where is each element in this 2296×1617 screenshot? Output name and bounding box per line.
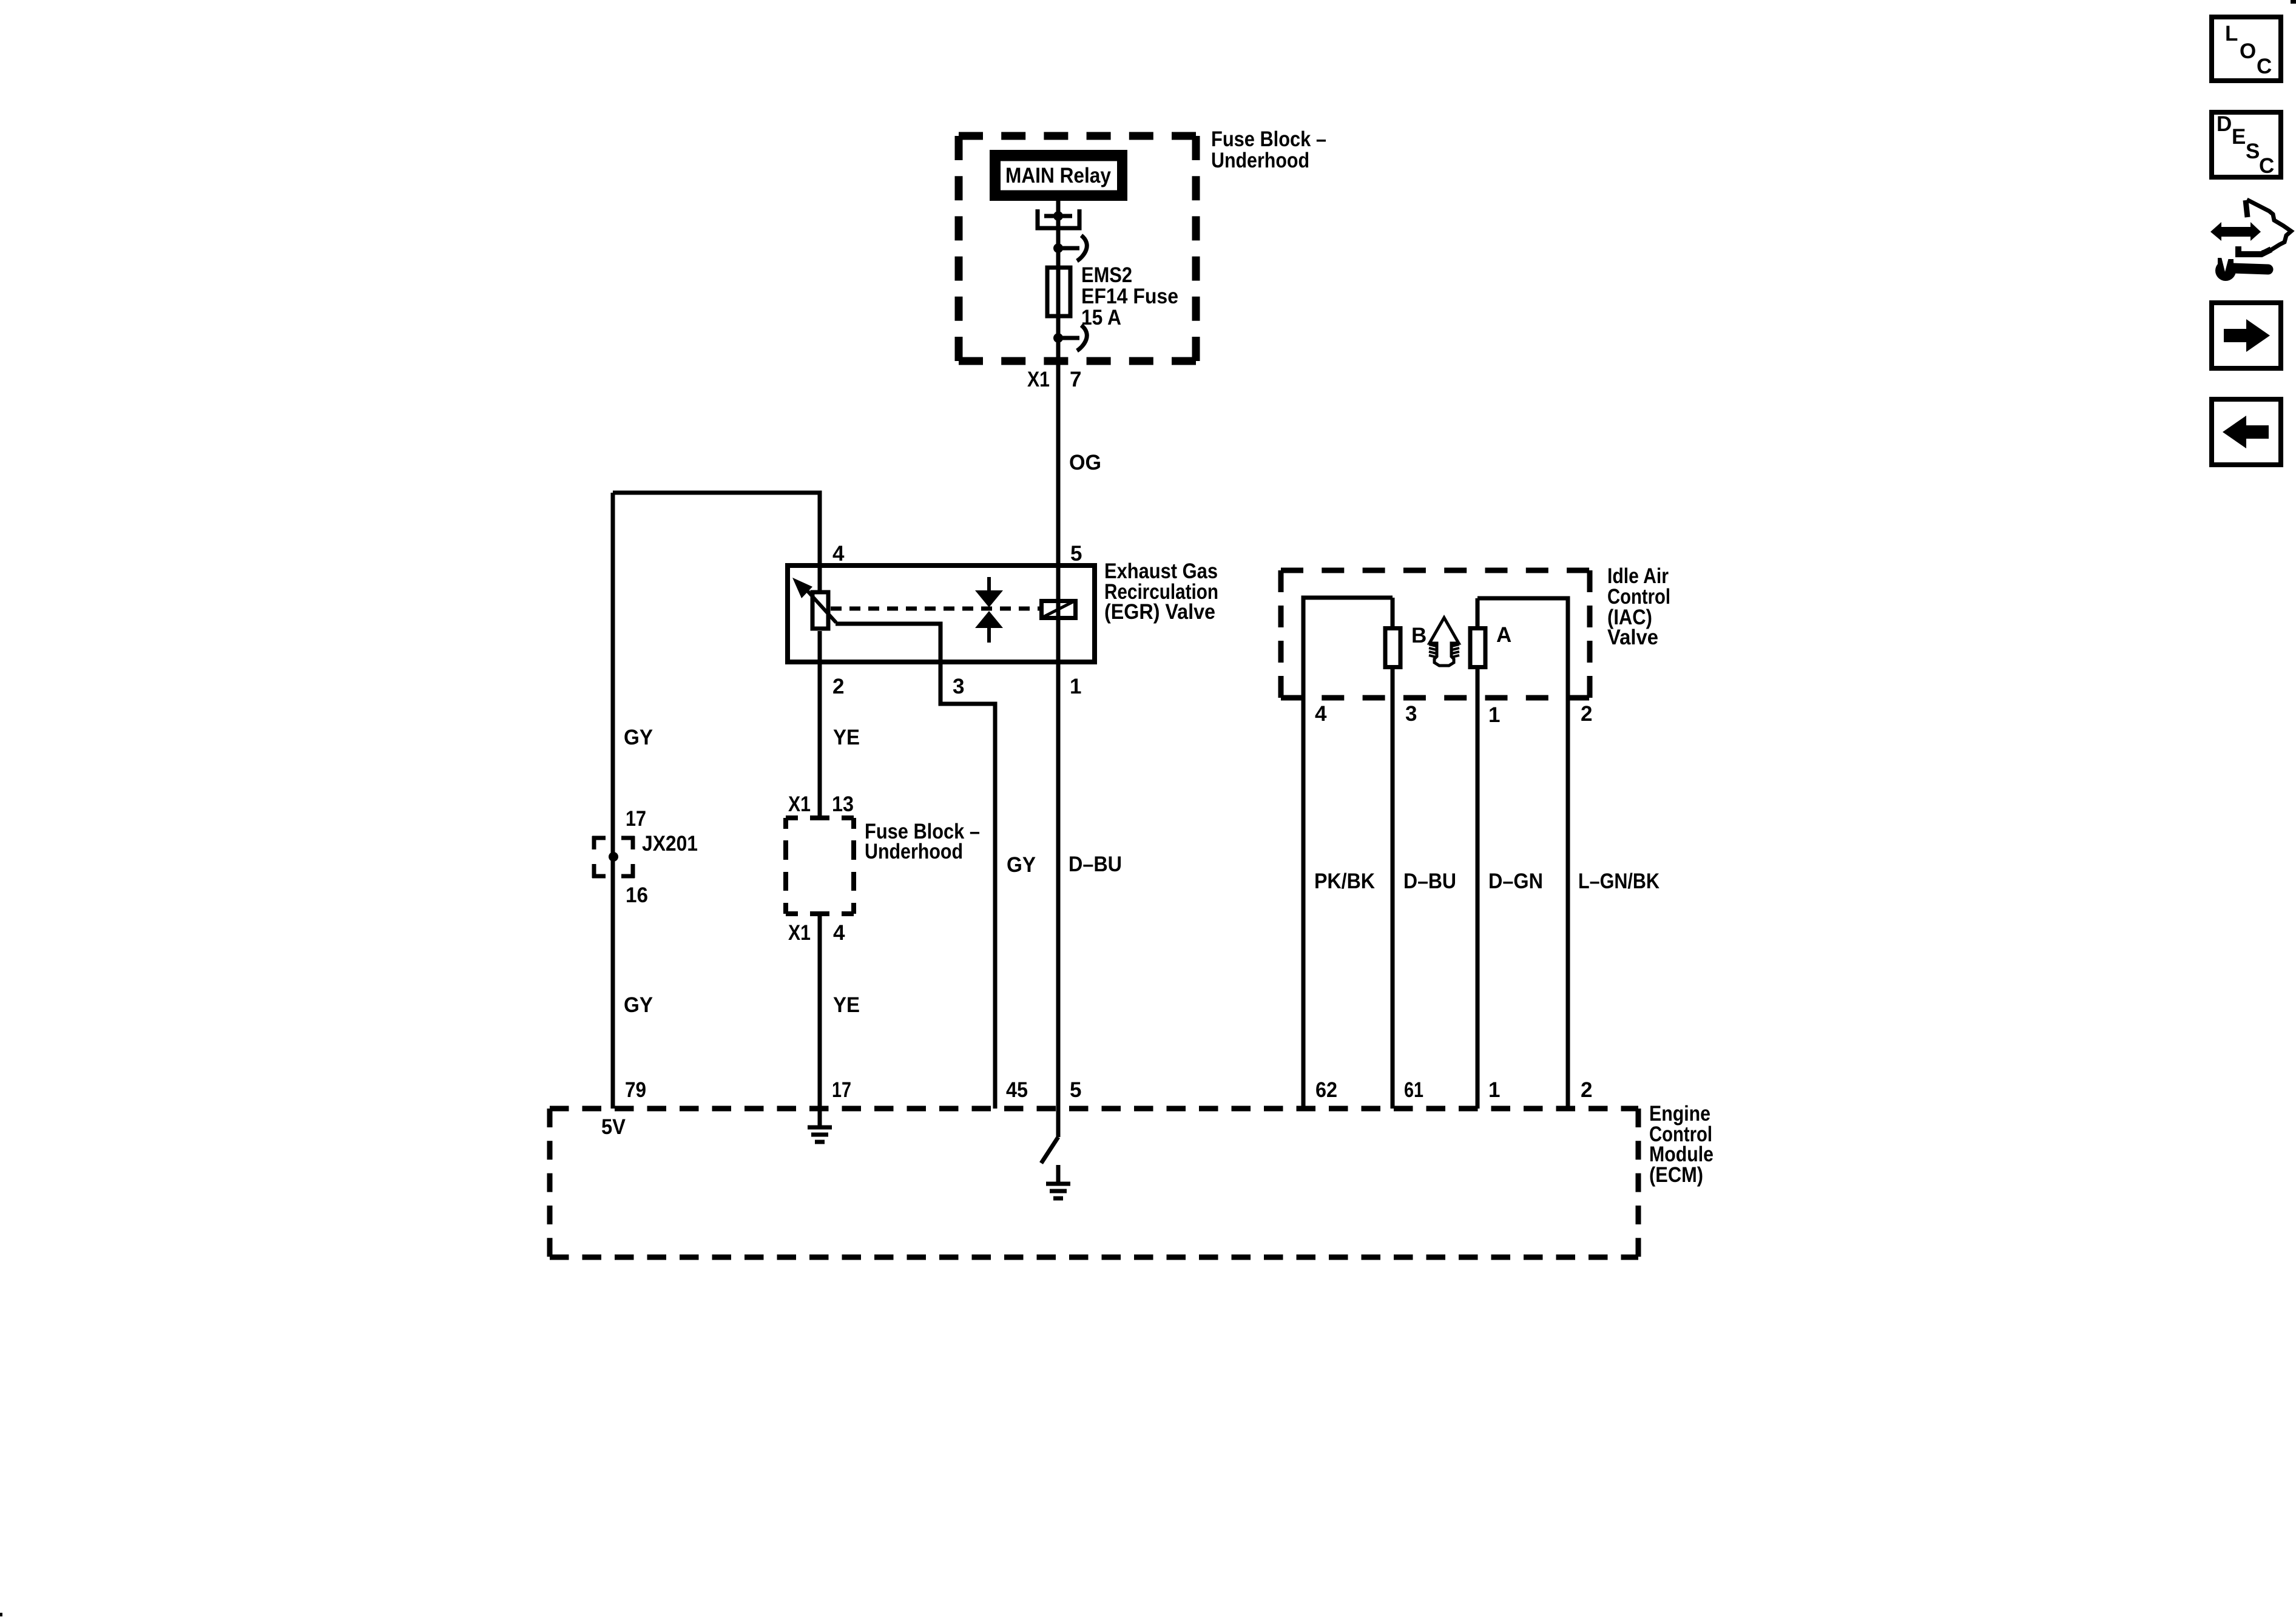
- coil A winding box: [1470, 629, 1485, 667]
- fuse block underhood (top) dashed box: [959, 136, 1196, 361]
- svg-text:Underhood: Underhood: [865, 840, 963, 863]
- wire relay output vertical OG feed: [1056, 201, 1061, 1137]
- svg-text:3: 3: [1405, 702, 1417, 726]
- wire IAC pin 4 PK/BK to ECM pin 62: [1303, 598, 1393, 1109]
- svg-text:MAIN Relay: MAIN Relay: [1005, 164, 1111, 187]
- svg-text:YE: YE: [833, 993, 860, 1017]
- svg-text:4: 4: [832, 542, 845, 565]
- svg-text:4: 4: [833, 921, 845, 945]
- svg-text:2: 2: [1581, 702, 1592, 726]
- node junction below fuse: [1053, 333, 1063, 343]
- svg-text:X1: X1: [788, 921, 811, 945]
- icon repair instructions: wrench: [2215, 257, 2268, 281]
- svg-text:1: 1: [1488, 703, 1500, 727]
- svg-text:(EGR) Valve: (EGR) Valve: [1104, 600, 1215, 624]
- icon repair instructions: double arrow: [2210, 222, 2261, 241]
- node dot at crossbar: [1053, 211, 1063, 221]
- svg-text:PK/BK: PK/BK: [1314, 869, 1375, 893]
- label Exhaust Gas Recirculation (EGR) Valve: [1104, 559, 1218, 624]
- IAC valve dashed box: [1281, 570, 1590, 698]
- svg-text:L: L: [2225, 22, 2238, 46]
- svg-text:GY: GY: [1007, 853, 1036, 877]
- female terminal hook (upper): [1077, 235, 1087, 261]
- wire IAC pin 1 D-GN to ECM pin 1: [1476, 667, 1480, 1109]
- svg-text:16: 16: [626, 883, 648, 907]
- coil B winding box: [1385, 629, 1400, 667]
- female terminal hook (lower): [1077, 325, 1087, 351]
- svg-text:C: C: [2259, 154, 2274, 178]
- wire IAC pin 3 D-BU to ECM pin 61: [1391, 667, 1395, 1109]
- label Fuse Block - Underhood (top): [1211, 127, 1326, 172]
- svg-text:2: 2: [832, 675, 844, 698]
- splice JX201 corner brackets: [592, 836, 635, 878]
- wire EGR pin 3 wiper GY with jog to ECM pin 45: [836, 624, 995, 1109]
- label Fuse Block - Underhood (middle): [865, 820, 980, 863]
- ground symbol inside ECM at pin 5: [1046, 1165, 1070, 1198]
- svg-text:C: C: [2257, 55, 2272, 78]
- fuse EMS2 EF14 15A body: [1047, 268, 1070, 316]
- svg-text:4: 4: [1315, 702, 1327, 726]
- svg-text:X1: X1: [788, 792, 811, 816]
- wire left GY vertical to ECM pin 79: [611, 493, 615, 1109]
- svg-text:Fuse Block –: Fuse Block –: [1211, 127, 1326, 151]
- svg-text:Underhood: Underhood: [1211, 149, 1309, 172]
- svg-text:15 A: 15 A: [1081, 306, 1121, 329]
- svg-text:GY: GY: [624, 726, 653, 749]
- label Idle Air Control (IAC) Valve: [1607, 564, 1670, 649]
- wire EGR pin 4 vertical: [818, 491, 822, 593]
- terminal crossbar: [1044, 214, 1072, 218]
- terminal T-bar at X1-13: [810, 815, 829, 820]
- svg-text:5: 5: [1070, 1078, 1081, 1102]
- valve pintle symbol lower triangle: [975, 611, 1003, 643]
- svg-text:O: O: [2240, 39, 2256, 63]
- svg-text:2: 2: [1581, 1078, 1592, 1102]
- svg-text:(ECM): (ECM): [1649, 1163, 1703, 1187]
- svg-text:5: 5: [1070, 542, 1082, 565]
- svg-text:7: 7: [1070, 368, 1081, 391]
- svg-text:D–BU: D–BU: [1069, 852, 1122, 876]
- potentiometer arrow shaft: [806, 590, 836, 623]
- fuse block underhood (middle) small dashed box: [786, 818, 854, 914]
- node splice dot JX201: [609, 852, 618, 862]
- svg-text:OG: OG: [1069, 451, 1101, 474]
- label EMS2 EF14 Fuse 15 A: [1081, 263, 1178, 329]
- page corner mark bottom left: [0, 1613, 2, 1616]
- switch to ground inside ECM at pin 5: [1041, 1137, 1058, 1163]
- svg-text:L–GN/BK: L–GN/BK: [1578, 869, 1660, 893]
- label connector X1 pin 7: [1027, 368, 1081, 391]
- svg-text:GY: GY: [624, 993, 653, 1017]
- EGR valve box: [788, 565, 1095, 662]
- svg-text:S: S: [2246, 140, 2260, 163]
- icon LOC box: [2212, 17, 2281, 81]
- potentiometer EGR position sensor body: [812, 592, 828, 629]
- connector terminal bracket below relay: [1038, 209, 1079, 228]
- wire IAC coil A upper leg: [1476, 598, 1480, 629]
- svg-text:1: 1: [1070, 675, 1081, 698]
- wire IAC coil B upper leg: [1391, 598, 1395, 629]
- svg-text:62: 62: [1315, 1078, 1337, 1102]
- svg-text:17: 17: [832, 1078, 851, 1102]
- terminal T-bar at X1-4: [810, 911, 829, 916]
- svg-text:D–GN: D–GN: [1488, 869, 1543, 893]
- wire stub to female terminal (upper): [1058, 246, 1079, 251]
- node junction above fuse: [1053, 243, 1063, 253]
- svg-text:17: 17: [626, 807, 646, 831]
- svg-text:D–BU: D–BU: [1403, 869, 1456, 893]
- svg-text:EF14 Fuse: EF14 Fuse: [1081, 285, 1178, 308]
- wire IAC pin 2 L-GN/BK to ECM pin 2: [1477, 598, 1568, 1109]
- ground symbol inside ECM at pin 17: [808, 1109, 832, 1142]
- dashed mechanical link line inside EGR valve: [831, 607, 1039, 611]
- svg-text:EMS2: EMS2: [1081, 263, 1132, 287]
- svg-text:D: D: [2217, 112, 2232, 136]
- icon previous document arrow box: [2212, 399, 2281, 465]
- svg-text:45: 45: [1006, 1078, 1028, 1102]
- page corner mark top right: [2291, 0, 2296, 4]
- svg-text:A: A: [1496, 623, 1511, 647]
- wire top horizontal 5V reference branch: [613, 491, 820, 495]
- icon repair instructions: connector outline: [2235, 200, 2291, 255]
- svg-text:X1: X1: [1027, 368, 1050, 391]
- label Engine Control Module (ECM): [1649, 1102, 1714, 1187]
- potentiometer arrowhead: [792, 578, 812, 598]
- svg-text:5V: 5V: [601, 1115, 626, 1139]
- svg-text:1: 1: [1488, 1078, 1500, 1102]
- valve pintle symbol upper triangle: [975, 577, 1003, 607]
- svg-text:JX201: JX201: [642, 832, 698, 856]
- svg-text:B: B: [1411, 624, 1427, 647]
- svg-text:YE: YE: [833, 726, 860, 749]
- wire stub to female terminal (lower): [1058, 336, 1079, 340]
- svg-text:Valve: Valve: [1607, 626, 1658, 649]
- relay MAIN Relay box: [994, 155, 1123, 197]
- svg-text:E: E: [2232, 125, 2246, 149]
- ECM dashed box: [550, 1109, 1638, 1257]
- wire EGR pin 2 YE down to fuse block X1-13: [818, 631, 822, 818]
- svg-text:79: 79: [625, 1078, 646, 1102]
- valve pintle arrow outline IAC: [1429, 618, 1459, 666]
- svg-text:13: 13: [832, 792, 854, 816]
- svg-text:61: 61: [1404, 1078, 1423, 1102]
- label connector X1 pin 4: [788, 921, 845, 945]
- wire YE from X1-4 to ECM pin 17: [818, 914, 822, 1109]
- solenoid coil EGR (box with slash): [1042, 601, 1076, 618]
- icon next document arrow box: [2212, 303, 2281, 368]
- icon DESC box: [2212, 112, 2281, 178]
- label connector X1 pin 13: [788, 792, 854, 816]
- svg-text:3: 3: [953, 675, 964, 698]
